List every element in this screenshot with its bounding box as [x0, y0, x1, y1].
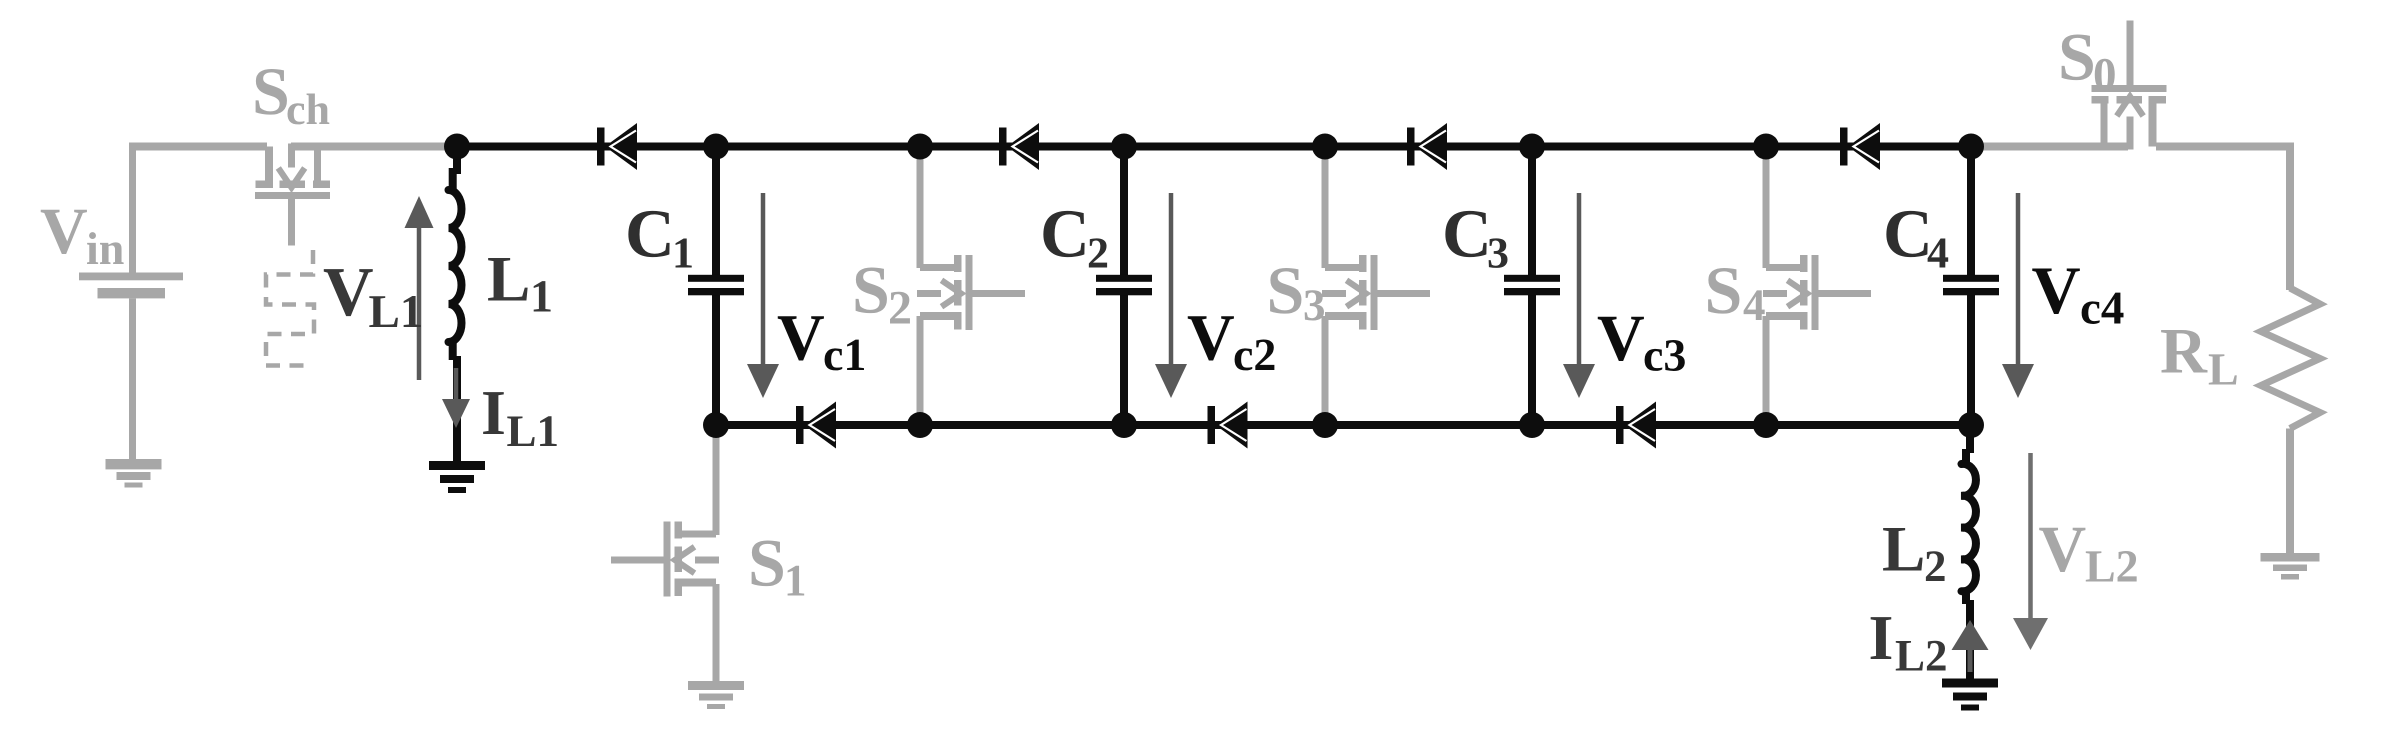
svg-text:V: V — [777, 302, 825, 375]
svg-text:C: C — [1040, 196, 1090, 272]
svg-text:L2: L2 — [2085, 541, 2139, 592]
svg-text:S: S — [1267, 252, 1305, 328]
svg-text:V: V — [1597, 302, 1645, 375]
svg-text:V: V — [2032, 252, 2081, 328]
svg-text:C: C — [1442, 196, 1492, 272]
svg-text:I: I — [481, 377, 506, 448]
svg-text:V: V — [40, 195, 88, 268]
svg-text:L: L — [1882, 514, 1925, 586]
svg-text:L: L — [487, 244, 530, 316]
svg-text:2: 2 — [1924, 541, 1947, 591]
svg-text:c4: c4 — [2080, 283, 2124, 335]
svg-text:S: S — [2058, 19, 2096, 95]
svg-text:S: S — [748, 525, 786, 601]
svg-text:R: R — [2160, 316, 2208, 388]
svg-text:L1: L1 — [369, 286, 424, 338]
svg-text:0: 0 — [2093, 49, 2117, 101]
svg-text:V: V — [2039, 513, 2087, 586]
svg-text:C: C — [625, 196, 675, 272]
svg-text:S: S — [852, 252, 890, 328]
svg-text:c2: c2 — [1233, 329, 1276, 380]
svg-text:V: V — [1187, 302, 1235, 375]
svg-text:c1: c1 — [823, 329, 866, 380]
svg-text:2: 2 — [1087, 229, 1109, 278]
svg-text:L: L — [2208, 344, 2239, 395]
svg-text:in: in — [86, 223, 124, 274]
svg-text:V: V — [323, 254, 374, 331]
svg-text:ch: ch — [286, 85, 330, 134]
svg-text:L2: L2 — [1895, 631, 1948, 681]
svg-text:c3: c3 — [1643, 330, 1686, 381]
svg-text:1: 1 — [530, 271, 553, 322]
svg-text:C: C — [1883, 196, 1933, 272]
svg-text:4: 4 — [1927, 229, 1949, 278]
svg-text:3: 3 — [1303, 280, 1326, 330]
svg-text:2: 2 — [888, 282, 912, 335]
svg-text:1: 1 — [672, 229, 694, 278]
svg-text:S: S — [1705, 252, 1743, 328]
svg-text:L1: L1 — [507, 406, 560, 456]
svg-text:3: 3 — [1487, 229, 1509, 278]
svg-text:I: I — [1869, 602, 1894, 673]
svg-text:S: S — [252, 53, 290, 129]
svg-text:4: 4 — [1743, 280, 1766, 330]
svg-text:1: 1 — [784, 556, 807, 606]
